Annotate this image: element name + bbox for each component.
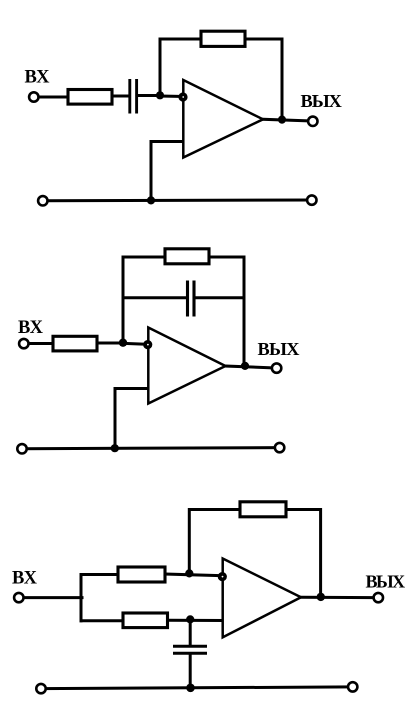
junction: inverting input pin dot (circuit 2) <box>143 340 152 349</box>
svg-text:ВЫХ: ВЫХ <box>258 339 300 359</box>
wire: node to op-amp inverting input <box>123 343 148 344</box>
junction: rail node (circuit 3) <box>186 684 195 693</box>
svg-text:ВЫХ: ВЫХ <box>366 572 406 592</box>
wire: op-amp output to ВЫХ terminal <box>301 596 373 599</box>
wire: feedback loop around R7 <box>189 510 320 597</box>
resistor R3 (input) <box>53 336 97 351</box>
input terminal circle (circuit 3) <box>14 593 23 602</box>
wire: non-inverting input to ground rail (circuit 1) <box>151 142 183 201</box>
op-amp U3 <box>223 559 301 638</box>
output terminal ВЫХ (circuit 2) <box>272 363 281 372</box>
wire: R5 to inverting node <box>165 574 223 576</box>
ground rail terminal left (circuit 2) <box>17 444 26 453</box>
wire: feedback loop around R2 <box>160 39 282 120</box>
junction: inverting input pin dot (circuit 1) <box>178 92 187 101</box>
op-amp U2 <box>148 328 225 404</box>
wire: input terminal to R3 <box>29 342 54 345</box>
junction: non-inverting node (circuit 3) <box>186 615 194 623</box>
wire: bottom common rail (circuit 2) <box>22 448 280 449</box>
junction: output/feedback node (circuit 3) <box>317 593 325 601</box>
junction: output/feedback node (circuit 2) <box>241 362 249 370</box>
junction: inverting input pin dot (circuit 3) <box>218 572 227 581</box>
junction: inverting node (circuit 3) <box>185 569 193 577</box>
svg-text:ВХ: ВХ <box>12 569 38 589</box>
junction: inverting node (circuit 2) <box>119 339 127 347</box>
op-amp U1 <box>183 80 263 158</box>
output terminal ВЫХ (circuit 3) <box>374 593 383 602</box>
output terminal ВЫХ (circuit 1) <box>308 117 317 126</box>
wire: input split vertical <box>80 575 83 621</box>
ground rail terminal left (circuit 1) <box>38 196 47 205</box>
resistor R1 (input) <box>68 90 112 105</box>
wire: upper branch to R5 <box>81 573 119 576</box>
wire: bottom common rail (circuit 3) <box>41 687 353 689</box>
input terminal circle (circuit 1) <box>29 92 38 101</box>
wire: R1 to capacitor C1 <box>112 95 129 98</box>
junction: rail node (circuit 2) <box>111 444 119 452</box>
resistor R2 (feedback) <box>201 31 245 46</box>
junction: inverting node (circuit 1) <box>156 91 164 99</box>
resistor R5 (upper input) <box>118 567 165 582</box>
ground rail terminal left (circuit 3) <box>36 684 45 693</box>
wire: feedback loop (left riser, top, right riser) <box>123 257 244 366</box>
capacitor C1 (series input) <box>130 79 137 114</box>
wire: node to op-amp inverting input <box>160 95 183 99</box>
capacitor C2 (feedback) <box>188 281 195 317</box>
junction: rail node (circuit 1) <box>147 196 155 204</box>
wire: C1 to inverting node <box>138 94 160 97</box>
capacitor C3 (to ground rail) <box>173 646 207 653</box>
ground rail terminal right (circuit 1) <box>307 195 316 204</box>
wire: node down to capacitor C3 <box>189 620 192 645</box>
input terminal circle (circuit 2) <box>19 339 28 348</box>
wire: op-amp output to ВЫХ terminal <box>263 119 307 121</box>
wire: bottom common rail (circuit 1) <box>43 199 312 203</box>
wire: capacitor branch left segment <box>123 296 187 299</box>
ground rail terminal right (circuit 2) <box>275 443 284 452</box>
resistor R4 (feedback) <box>165 249 209 264</box>
resistor R7 (feedback) <box>240 502 286 517</box>
ground rail terminal right (circuit 3) <box>348 682 357 691</box>
wire: R6 to non-inverting node <box>168 619 223 622</box>
wire: R3 to inverting node <box>97 342 123 345</box>
svg-text:ВХ: ВХ <box>18 318 44 338</box>
svg-text:ВЫХ: ВЫХ <box>301 91 342 111</box>
wire: capacitor branch right segment <box>195 296 244 299</box>
svg-text:ВХ: ВХ <box>25 68 51 88</box>
wire: input terminal to R1 <box>39 96 69 99</box>
wire: input terminal to split point <box>24 596 82 599</box>
wire: lower branch to R6 <box>81 619 124 622</box>
wire: op-amp output to ВЫХ terminal <box>226 366 272 368</box>
wire: non-inverting input to ground rail (circuit 2) <box>115 389 148 449</box>
wire: capacitor C3 to ground rail <box>189 655 192 688</box>
junction: output/feedback node (circuit 1) <box>278 116 286 124</box>
resistor R6 (lower input) <box>123 613 168 628</box>
